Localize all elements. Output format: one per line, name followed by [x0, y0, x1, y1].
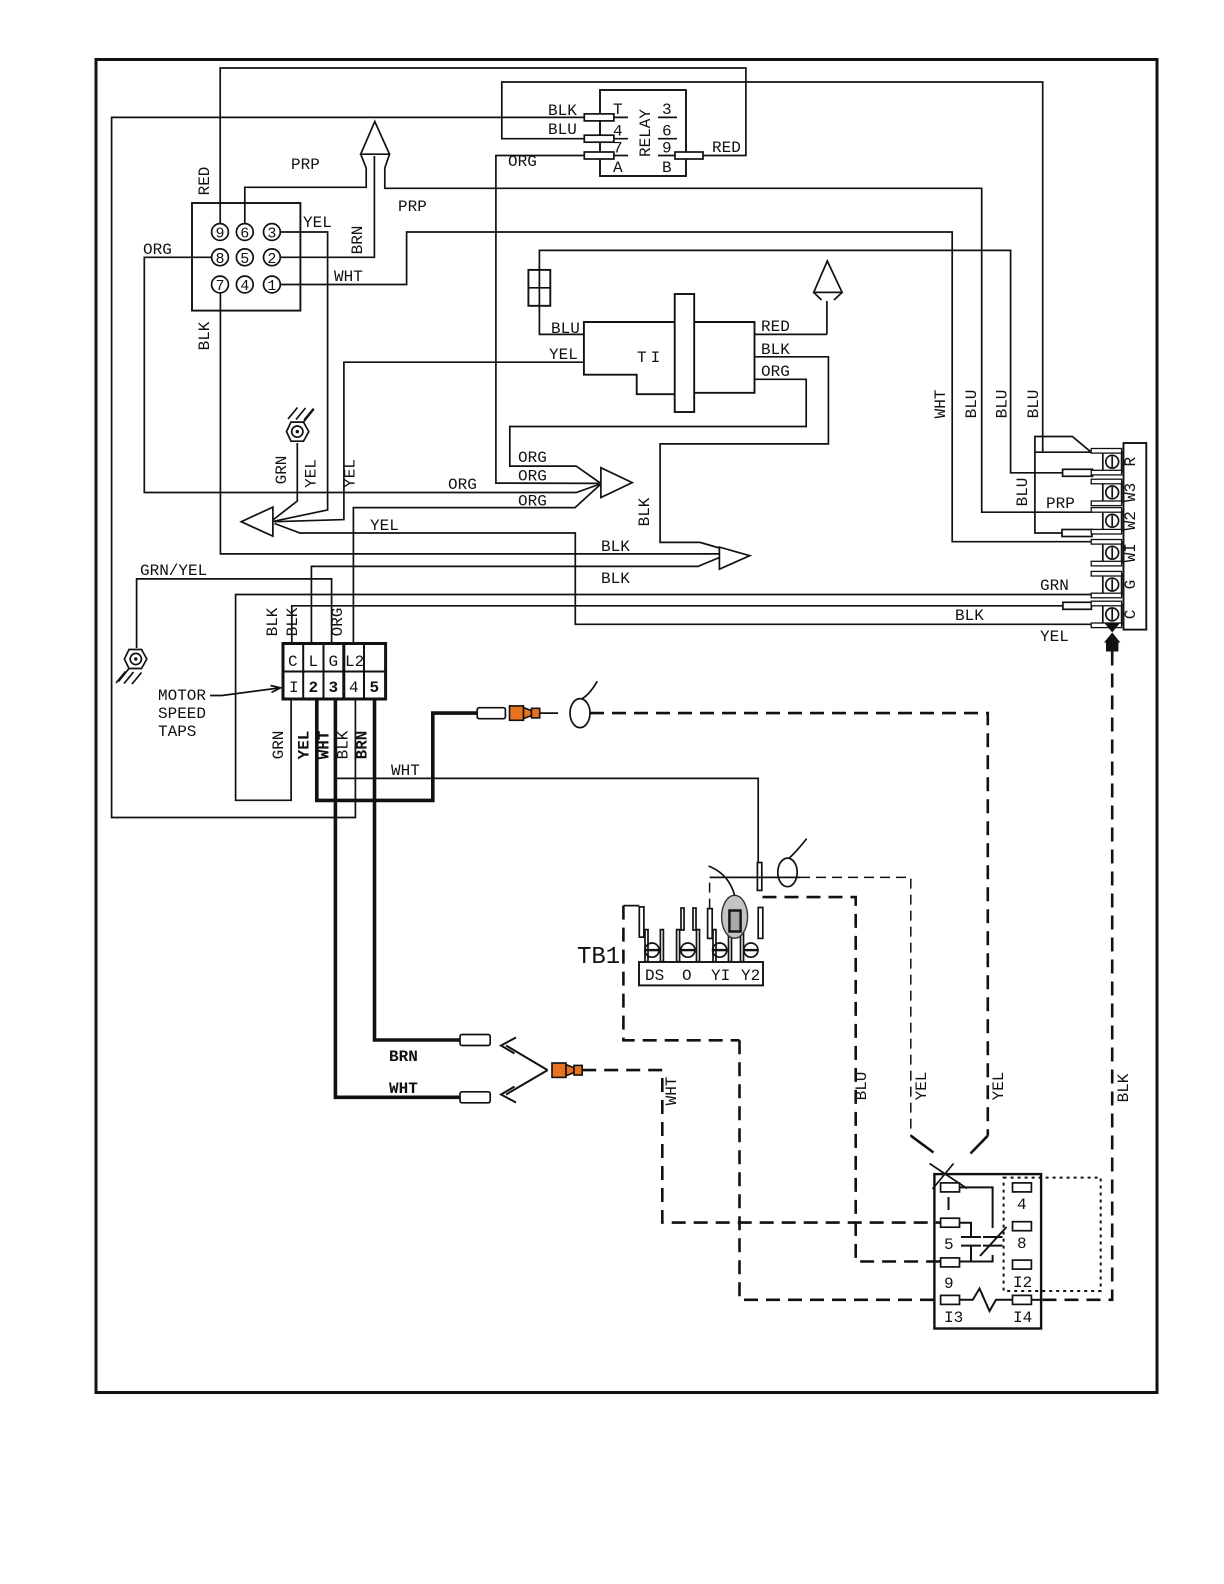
TB1 base [639, 962, 763, 985]
ground G1 hex nut [287, 422, 309, 441]
wire BRN: triangle center down to pin 2 [280, 156, 374, 257]
svg-text:I4: I4 [1013, 1309, 1032, 1327]
svg-text:3: 3 [267, 226, 276, 243]
svg-text:GRN/YEL: GRN/YEL [140, 562, 207, 580]
wire WHT thick: tap3 down to splice S2 [335, 699, 460, 1097]
svg-text:BRN: BRN [389, 1048, 418, 1066]
svg-text:4: 4 [349, 679, 359, 697]
thermal link pin13 to pin14 [960, 1289, 1013, 1312]
wire BRN thick: tap5 down to splice S2 [375, 699, 461, 1040]
svg-text:GRN: GRN [1040, 577, 1069, 595]
terminal C [1091, 601, 1140, 627]
svg-text:A: A [613, 159, 623, 177]
svg-text:YEL: YEL [342, 459, 360, 488]
svg-text:WHT: WHT [391, 762, 420, 780]
wire GRN: taps loop to terminal G [236, 595, 1092, 801]
wire BLK: T1 secondary right, down, left, down to BLK arrow [660, 357, 828, 548]
wire BLK dashed: bowtie down to contactor pin 14 [1041, 652, 1112, 1300]
svg-text:SPEED: SPEED [158, 705, 206, 723]
svg-text:BRN: BRN [349, 226, 367, 255]
svg-text:5: 5 [944, 1236, 954, 1254]
wire YEL: T1 primary left to YEL arrow [275, 362, 584, 522]
terminal W3 [1091, 479, 1140, 505]
wire BLU: relay pin4 up and right to terminal R hood [502, 82, 1043, 452]
relay pin underlines right 3 6 9 [658, 116, 677, 118]
field loop ellipse E2 [778, 858, 797, 887]
wire BLK: terminal C to taps col C [292, 606, 1063, 644]
wire WHT stub at TB1 [757, 863, 761, 891]
svg-text:B: B [662, 159, 672, 177]
wire PRP: triangle right leg to terminal W2 riser [385, 168, 1091, 512]
svg-text:BLK: BLK [548, 102, 577, 120]
field loop ellipse E1 [570, 699, 590, 728]
svg-text:BLU: BLU [548, 121, 577, 139]
svg-text:Y2: Y2 [741, 967, 760, 985]
splice bowtie under C [1104, 623, 1120, 633]
ground G1 hatch [304, 409, 315, 422]
wire WHT dashed: S2 to contactor pin 5 [582, 1070, 940, 1223]
svg-text:ORG: ORG [518, 493, 547, 511]
svg-text:PRP: PRP [1046, 495, 1075, 513]
svg-text:WHT: WHT [389, 1080, 418, 1098]
svg-text:6: 6 [240, 226, 249, 243]
svg-text:L2: L2 [345, 653, 364, 671]
wire DS dashed: down, right, down to pin 13 [623, 905, 639, 907]
splice S1 stub [477, 708, 505, 719]
svg-text:YEL: YEL [303, 214, 332, 232]
fuse F1 box [528, 270, 550, 306]
svg-text:G: G [329, 653, 339, 671]
svg-text:ORG: ORG [143, 241, 172, 259]
svg-text:BRN: BRN [354, 731, 372, 760]
svg-text:BLK: BLK [955, 607, 984, 625]
svg-text:YI: YI [711, 967, 730, 985]
circle pin 1 [264, 276, 281, 293]
terminal W1 [1091, 540, 1140, 566]
svg-text:YEL: YEL [913, 1072, 931, 1101]
wire BLK top: left riser to relay T stub [112, 117, 585, 817]
svg-text:6: 6 [662, 123, 672, 141]
transformer T1 primary outline [584, 322, 675, 394]
wire YEL long: arrow to L2 riser junction then to bowtie under C [275, 524, 1104, 625]
wire GRN/YEL: ground G2 to taps col G [137, 579, 332, 648]
svg-text:3: 3 [662, 101, 672, 119]
svg-text:WI: WI [1122, 543, 1140, 562]
splice S2 orange crimp [552, 1063, 582, 1077]
svg-text:I2: I2 [1013, 1274, 1032, 1292]
circle pin 4 [236, 276, 253, 293]
svg-text:I: I [289, 679, 299, 697]
circle pin 5 [236, 249, 253, 266]
relay U1 box [600, 90, 686, 176]
contactor V right arm [971, 1136, 988, 1154]
svg-text:YEL: YEL [303, 459, 321, 488]
svg-text:PRP: PRP [291, 156, 320, 174]
svg-text:I3: I3 [944, 1309, 963, 1327]
wire YEL dashed: E2 right, down to contactor V left [800, 877, 911, 1135]
splice S2 BRN stub [460, 1035, 490, 1046]
transformer T1 secondary outline [694, 322, 754, 393]
svg-text:BLU: BLU [1014, 478, 1032, 507]
svg-text:ORG: ORG [761, 363, 790, 381]
wire PRP: pin6 up to triangle [245, 168, 366, 224]
TB1 Y1 terminal [708, 909, 732, 962]
svg-text:YEL: YEL [370, 517, 399, 535]
terminal G [1091, 571, 1140, 597]
circle pin 6 [236, 224, 253, 241]
svg-text:5: 5 [240, 251, 249, 268]
svg-text:BLK: BLK [601, 570, 630, 588]
ground G2 hatch [119, 669, 130, 682]
arrow symbol A4 YEL (left triangle) [241, 507, 273, 536]
wire BLK low: taps col L riser into BLK arrow [311, 558, 719, 644]
plug pigtail curve [709, 866, 735, 896]
svg-text:9: 9 [216, 226, 225, 243]
pin 1 [941, 1183, 960, 1192]
ground G2 hex nut [124, 650, 146, 669]
capacitor C1 from pin5 [960, 1223, 972, 1237]
hood jumper R/W1 [1035, 437, 1091, 453]
svg-text:BLU: BLU [1025, 390, 1043, 419]
svg-text:BLK: BLK [284, 607, 302, 636]
svg-text:9: 9 [662, 140, 672, 158]
splice S2 WHT stub [460, 1092, 490, 1103]
wire WHT long: tap3 junction right to TB1 stub [335, 778, 758, 863]
motor speed taps block [283, 644, 386, 700]
wire pin14 to box edge [1031, 1299, 1041, 1301]
terminal strip TS1 body [1124, 443, 1147, 630]
svg-text:TI: TI [637, 349, 664, 367]
circle pin 3 [264, 224, 281, 241]
wire GRN: ground G1 down to YEL arrow [274, 443, 298, 520]
wire ORG: T1 secondary down loop to ORG arrow [510, 379, 806, 483]
gray plug on Y1 [722, 895, 748, 938]
wire RED: T1 secondary to arrow A2 [755, 333, 827, 335]
svg-text:7: 7 [216, 278, 225, 295]
9-pin connector P1 box [192, 203, 300, 311]
svg-text:YEL: YEL [990, 1072, 1008, 1101]
arrow symbol A2 (up triangle) [814, 261, 842, 292]
svg-text:MOTOR: MOTOR [158, 687, 206, 705]
wire YEL dashed: S1 to contactor V right [590, 713, 988, 1136]
pin 9 [941, 1258, 960, 1267]
wire ORG: circle 8 left and down to ORG arrow [144, 257, 600, 492]
wire jumper hood to W2 stub [1035, 452, 1062, 533]
pin 4 [1013, 1183, 1032, 1192]
svg-text:O: O [682, 967, 692, 985]
svg-text:YEL: YEL [296, 731, 314, 760]
wire YEL: circle 3 right and down to YEL arrow [274, 232, 328, 521]
contactor X mark [930, 1164, 968, 1189]
arrow symbol A1 (up triangle) [361, 122, 390, 155]
svg-text:BLK: BLK [761, 341, 790, 359]
contactor CC1 box [934, 1174, 1041, 1328]
relay stub pin T [584, 114, 614, 121]
wire ORG: L2 riser to ORG arrow [353, 485, 600, 644]
circle pin 9 [212, 224, 229, 241]
terminal W2 [1091, 508, 1140, 534]
stub W3 wire [1063, 469, 1093, 476]
svg-text:BLU: BLU [963, 390, 981, 419]
svg-text:GRN: GRN [273, 456, 291, 485]
contactor dotted aux box [1004, 1178, 1101, 1291]
arrow symbol A5 BLK (right triangle) [719, 547, 749, 569]
svg-text:PRP: PRP [398, 198, 427, 216]
relay pin underlines left T 4 7 [609, 116, 628, 118]
crossed capacitor C2 on pin1 branch [983, 1236, 1003, 1238]
svg-text:1: 1 [267, 278, 276, 295]
svg-text:W3: W3 [1122, 483, 1140, 502]
svg-text:ORG: ORG [508, 153, 537, 171]
svg-text:TB1: TB1 [577, 944, 620, 971]
svg-text:C: C [288, 653, 298, 671]
svg-text:WHT: WHT [663, 1077, 681, 1106]
svg-text:BLK: BLK [1115, 1073, 1133, 1102]
transformer T1 core bar [675, 294, 695, 412]
circle pin 2 [264, 249, 281, 266]
contactor V left arm [911, 1136, 934, 1153]
circle pin 7 [212, 276, 229, 293]
svg-text:YEL: YEL [549, 346, 578, 364]
svg-text:C: C [1122, 610, 1140, 620]
wire BLK mid: circle7 riser into BLK arrow [220, 293, 719, 554]
TB1 DS terminal [639, 907, 663, 962]
svg-text:R: R [1122, 457, 1140, 467]
svg-text:4: 4 [240, 278, 249, 295]
circle pin 8 [212, 249, 229, 266]
svg-text:3: 3 [329, 679, 339, 697]
svg-text:2: 2 [309, 679, 319, 697]
wire YEL thick: tap2 to splice S1 [317, 699, 477, 800]
wire WHT: circle 1 right, up, right to terminal W1 riser [280, 232, 1091, 542]
svg-text:ORG: ORG [448, 476, 477, 494]
svg-text:BLU: BLU [994, 390, 1012, 419]
svg-text:4: 4 [1017, 1196, 1027, 1214]
arrow A1 neck [361, 154, 367, 168]
V arrowhead to BRN stub [506, 1046, 548, 1071]
svg-text:W2: W2 [1122, 511, 1140, 530]
arrow symbol A3 ORG (right triangle) [601, 468, 632, 498]
svg-text:9: 9 [944, 1275, 954, 1293]
svg-text:ORG: ORG [329, 608, 347, 637]
svg-text:YEL: YEL [1040, 628, 1069, 646]
svg-text:RELAY: RELAY [637, 109, 655, 157]
svg-text:BLK: BLK [196, 321, 214, 350]
wire Y1 riser solid to WHT stub and ellipse [710, 876, 800, 878]
wire from S1 crimp to field [540, 712, 558, 714]
svg-text:8: 8 [1017, 1235, 1027, 1253]
svg-text:BLK: BLK [264, 607, 282, 636]
svg-text:RED: RED [196, 167, 214, 196]
relay stub pin B [675, 152, 703, 159]
TB1 Y2 terminal [741, 908, 763, 962]
wire RED top: relay B to 9-pin circle 9 [220, 68, 746, 224]
relay stub pin 4/7 [584, 135, 614, 142]
border frame [96, 60, 1157, 1393]
svg-text:ORG: ORG [518, 468, 547, 486]
svg-text:BLK: BLK [601, 538, 630, 556]
svg-text:8: 8 [216, 251, 225, 268]
svg-text:ORG: ORG [518, 449, 547, 467]
svg-text:WHT: WHT [334, 268, 363, 286]
wire Y2 dashed: right, down to pin 9 [763, 897, 941, 1261]
svg-text:2: 2 [267, 251, 276, 268]
wire Y1 dashed riser [709, 877, 711, 908]
svg-text:TAPS: TAPS [158, 723, 196, 741]
pin 13 [941, 1295, 960, 1304]
svg-text:BLK: BLK [335, 730, 353, 759]
wire ORG: relay pin A down to ORG arrow [496, 156, 599, 484]
TB1 O terminal [677, 908, 700, 962]
pin 5 [941, 1218, 960, 1227]
pin 12 [1013, 1260, 1032, 1269]
arrow A2 neck [814, 292, 822, 300]
wire BLU: T1 primary through fuse to terminal riser [539, 250, 1062, 472]
svg-text:WHT: WHT [932, 390, 950, 419]
svg-text:GRN: GRN [270, 731, 288, 760]
terminal R [1091, 449, 1140, 475]
pin 8 [1013, 1222, 1032, 1231]
svg-text:BLK: BLK [636, 497, 654, 526]
svg-text:BLU: BLU [551, 320, 580, 338]
svg-text:RED: RED [712, 139, 741, 157]
relay stub pin A [584, 152, 614, 159]
pin 14 [1013, 1295, 1032, 1304]
svg-text:L: L [309, 653, 319, 671]
splice S1 orange crimp [510, 706, 540, 720]
svg-text:DS: DS [645, 967, 664, 985]
coil wiring pin1 to pin9 [960, 1187, 993, 1228]
svg-text:G: G [1122, 580, 1140, 590]
svg-text:RED: RED [761, 318, 790, 336]
svg-text:5: 5 [370, 679, 380, 697]
